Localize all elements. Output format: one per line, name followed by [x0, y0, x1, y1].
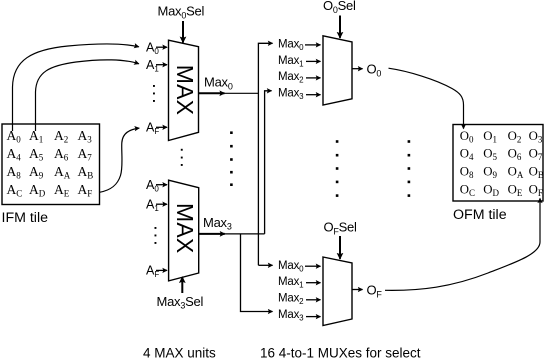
- svg-text:16 4-to-1 MUXes for select: 16 4-to-1 MUXes for select: [260, 346, 421, 360]
- svg-text:4 MAX units: 4 MAX units: [143, 346, 216, 360]
- svg-text:OFSel: OFSel: [324, 220, 358, 237]
- svg-text:MAX: MAX: [172, 65, 198, 115]
- svg-text:IFM tile: IFM tile: [2, 210, 49, 226]
- svg-text:MAX: MAX: [172, 203, 198, 253]
- svg-text:Max3Sel: Max3Sel: [157, 294, 204, 311]
- svg-text:O0Sel: O0Sel: [323, 0, 356, 15]
- svg-text:OFM tile: OFM tile: [453, 207, 507, 223]
- svg-text:Max0Sel: Max0Sel: [158, 4, 205, 21]
